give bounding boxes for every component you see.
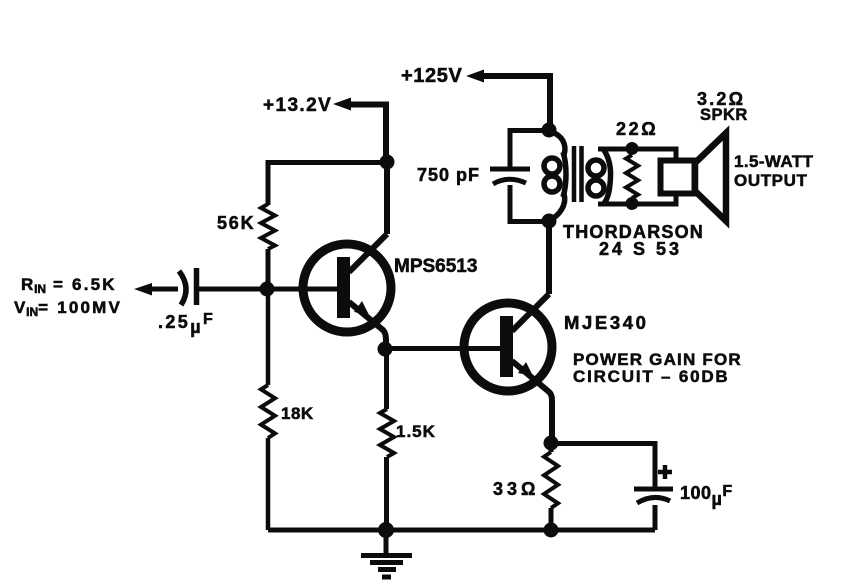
power +13.2V arrow: [333, 98, 351, 111]
resistor 33 ohm: [544, 452, 558, 508]
label MJE340: [564, 312, 649, 333]
svg-text:CIRCUIT – 60DB: CIRCUIT – 60DB: [573, 367, 730, 386]
wire +125V feed: [482, 76, 550, 130]
wire 100uF bottom lead: [653, 505, 658, 530]
label 33 ohm: [493, 479, 539, 499]
label RIN: [21, 275, 117, 296]
svg-text:1.5K: 1.5K: [396, 422, 436, 441]
capacitor 100uF plus sign: [658, 465, 672, 479]
svg-text:750 pF: 750 pF: [417, 165, 480, 185]
input arrow: [134, 283, 152, 296]
capacitor 750pF: [490, 169, 530, 184]
wire base node down to 18K: [266, 289, 271, 385]
ground: [361, 530, 412, 577]
wire C1 to base node: [198, 287, 267, 292]
node transformer bottom: [542, 214, 557, 229]
svg-text:22Ω: 22Ω: [616, 119, 658, 139]
wire Q1 emitter to Q2 base: [385, 346, 500, 351]
transformer T1 core: [574, 146, 582, 202]
wire base node to Q1 base: [267, 287, 337, 292]
svg-text:24 S 53: 24 S 53: [599, 239, 682, 259]
label 56K: [217, 213, 255, 233]
label THORDARSON: [563, 222, 704, 242]
node transformer top: [542, 123, 557, 138]
transformer T1 primary: [544, 131, 566, 220]
capacitor C1 .25uF: [179, 268, 197, 305]
label 3.2 ohm: [697, 89, 745, 109]
power +125V arrow: [466, 70, 484, 83]
transistor Q2 MJE340: [464, 294, 552, 443]
wire input arrow to C1: [150, 287, 178, 292]
label POWER GAIN FOR: [573, 350, 742, 369]
label VIN: [14, 298, 122, 319]
wire 750pF bottom branch: [510, 185, 549, 222]
node Q1 emitter junction: [378, 342, 393, 357]
wire 18K to bottom rail: [266, 438, 271, 530]
node ground junction: [378, 522, 394, 538]
wire +13.2V feed to collector rail: [348, 105, 386, 163]
svg-text:18K: 18K: [281, 404, 314, 423]
svg-text:1.5-WATT: 1.5-WATT: [734, 152, 814, 171]
svg-text:MPS6513: MPS6513: [394, 256, 477, 277]
svg-text:+125V: +125V: [401, 65, 462, 87]
label CIRCUIT - 60DB: [573, 367, 730, 386]
resistor 22 ohm: [626, 155, 638, 198]
node bottom right junction: [544, 523, 559, 538]
wire emitter node to 100uF top: [551, 444, 655, 490]
wire 750pF top branch: [510, 131, 549, 170]
resistor 56K: [261, 204, 275, 249]
svg-text:OUTPUT: OUTPUT: [734, 171, 807, 190]
svg-text:SPKR: SPKR: [700, 106, 748, 124]
label SPKR: [700, 106, 748, 124]
label 100uF: [680, 483, 733, 509]
node Q2 emitter junction: [544, 436, 559, 451]
svg-text:+13.2V: +13.2V: [263, 95, 332, 116]
wire Q1 collector to rail junction: [384, 162, 390, 234]
label .25uF: [158, 311, 215, 337]
wire emitter node to 1.5K: [384, 349, 389, 409]
label OUTPUT: [734, 171, 807, 190]
speaker box: [661, 161, 695, 194]
node base of Q1: [260, 282, 275, 297]
transistor Q1 MPS6513: [303, 234, 391, 349]
svg-text:33Ω: 33Ω: [493, 479, 539, 499]
wire transformer bottom to Q2 collector: [546, 221, 552, 294]
transformer T1 secondary: [588, 150, 611, 204]
wire 56K to base node: [266, 249, 271, 289]
label MPS6513: [394, 256, 477, 277]
svg-text:56K: 56K: [217, 213, 255, 233]
capacitor 100uF: [634, 489, 673, 503]
label 1.5K: [396, 422, 436, 441]
power +125V label: [401, 65, 462, 87]
node 22ohm top: [626, 142, 639, 155]
label 22 ohm: [616, 119, 658, 139]
wire bottom rail: [268, 528, 655, 533]
label 1.5-WATT: [734, 152, 814, 171]
wire top-left to 56K: [268, 163, 387, 206]
label 24 S 53: [599, 239, 682, 259]
speaker horn: [695, 133, 726, 221]
resistor 18K: [261, 385, 275, 438]
wire secondary loop: [598, 149, 676, 204]
node collector rail junction: [380, 155, 395, 170]
label 750pF: [417, 165, 480, 185]
svg-text:MJE340: MJE340: [564, 312, 649, 333]
wire 1.5K to ground rail: [384, 457, 389, 530]
power +13.2V label: [263, 95, 332, 116]
resistor 1.5K: [380, 409, 394, 457]
node 22ohm bottom: [626, 197, 639, 210]
label 18K: [281, 404, 314, 423]
wire 33 ohm leads: [549, 443, 554, 530]
